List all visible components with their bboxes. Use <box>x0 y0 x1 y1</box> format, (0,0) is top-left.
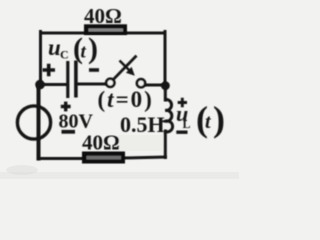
svg-text:0.5H: 0.5H <box>120 112 165 137</box>
wire left wall lower through source <box>37 86 41 159</box>
wire right wall upper <box>164 32 167 86</box>
svg-text:L: L <box>183 117 191 131</box>
inductor L coil 0.5H <box>165 99 172 131</box>
svg-text:(t=0): (t=0) <box>98 87 154 112</box>
node B junction dot right <box>161 81 170 90</box>
capacitor C plates <box>66 61 69 98</box>
voltage source US circle <box>17 106 50 139</box>
wire left wall upper <box>39 32 42 87</box>
svg-text:40Ω: 40Ω <box>84 4 122 28</box>
resistor R1 top 40ohm box <box>84 24 127 35</box>
wire switch to right wall <box>146 84 166 87</box>
circuit schematic: RC-RL transient circuit <box>0 0 239 179</box>
wire right wall inductor to bottom <box>164 131 167 158</box>
resistor R2 bottom 40ohm box <box>82 152 125 164</box>
svg-text:80V: 80V <box>59 111 94 133</box>
switch S blade <box>114 56 137 80</box>
wire middle left (node A to capacitor) <box>40 83 67 86</box>
svg-text:t: t <box>81 42 87 63</box>
minus sign capacitor <box>89 68 99 72</box>
svg-text:): ) <box>88 32 98 65</box>
wire bottom right <box>123 157 166 158</box>
svg-text:40Ω: 40Ω <box>82 131 120 155</box>
minus sign inductor <box>176 130 187 133</box>
wire bottom <box>38 157 84 160</box>
plus sign inductor <box>178 98 187 107</box>
plus sign capacitor <box>43 64 56 77</box>
wire capacitor to switch <box>77 83 107 86</box>
switch S left contact <box>106 79 114 87</box>
node A junction dot left <box>35 80 45 90</box>
scan smudges <box>0 135 239 179</box>
wire right wall junction to inductor <box>164 86 167 101</box>
minus sign source <box>62 130 76 134</box>
svg-text:C: C <box>60 48 69 62</box>
wire top <box>41 32 166 35</box>
svg-text:): ) <box>213 99 225 139</box>
switch S right contact <box>137 79 145 87</box>
switch S motion arrow <box>120 61 131 72</box>
plus sign source <box>61 102 71 112</box>
